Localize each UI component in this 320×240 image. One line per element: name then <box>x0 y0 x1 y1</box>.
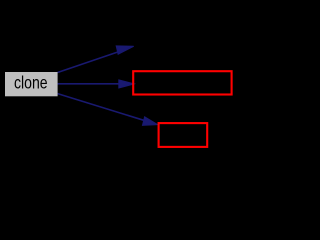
edge: clone -> red box 2 (lower right) <box>58 94 145 121</box>
node: clone (current function, gray filled) <box>5 72 58 96</box>
node: red box 2 (truncated callee, small) <box>159 123 208 147</box>
arrowhead: clone -> red box 2 <box>142 117 157 126</box>
node: red box 1 (truncated callee, large) <box>133 71 231 94</box>
edge: clone -> hidden node (upper right) <box>58 51 120 72</box>
arrowhead: clone -> hidden node <box>116 46 134 54</box>
svg-text:clone: clone <box>14 72 48 92</box>
arrowhead: clone -> red box 1 <box>119 80 134 88</box>
edge: clone -> red box 1 (middle) <box>58 83 120 85</box>
